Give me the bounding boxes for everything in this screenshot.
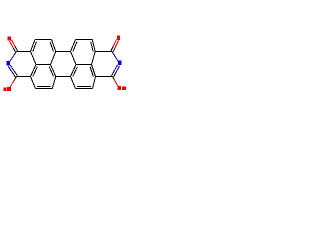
- double bond C3=N1: [15, 72, 18, 76]
- aromatic double UL-left: [31, 40, 36, 52]
- atom label N left: [6, 61, 10, 65]
- edge LL lower-left: [31, 77, 36, 89]
- aromatic double LL-upper-right: [51, 65, 56, 77]
- edge LR lower-right: [93, 77, 96, 89]
- atom label O top-left carbonyl: [8, 36, 11, 40]
- naphthalene fusion bond right: [76, 64, 92, 66]
- biaryl bond bottom: [56, 76, 71, 78]
- top edge UL ring: [35, 39, 52, 41]
- hydroxyl C3-OH left: [14, 77, 16, 81]
- aromatic double UL-right: [52, 40, 56, 52]
- edge LR lower-left: [71, 77, 76, 89]
- bond C8-N2 single: [112, 52, 114, 56]
- atom label H of HO bottom-left: [3, 88, 6, 92]
- biaryl bond top: [56, 51, 71, 53]
- bond C11a-C11b: [31, 52, 37, 65]
- bond C1-C11a: [17, 51, 31, 53]
- bond C8a-C8: [95, 51, 112, 53]
- bond C1-N1 single: [14, 52, 17, 56]
- atom label O of HO bottom-left: [7, 87, 11, 91]
- atom label H of OH bottom-right: [122, 86, 126, 90]
- atom label O top-right carbonyl: [117, 36, 120, 40]
- double bond C11b=C11c left: [31, 65, 37, 77]
- edge central upper-right: [71, 52, 77, 65]
- chemical structure drawing: perylene bisimide (lactim tautomer): [0, 0, 130, 130]
- double bond C10=N2: [114, 73, 116, 77]
- naphthalene fusion bond left: [36, 64, 51, 66]
- hydroxyl C10-OH right: [113, 77, 115, 81]
- carbonyl C1=O left: [15, 47, 17, 51]
- edge LL lower-right: [52, 77, 56, 89]
- aromatic double LR-upper-right: [92, 65, 96, 77]
- carbonyl C8=O right: [113, 48, 115, 52]
- aromatic double UR-left: [71, 40, 76, 52]
- bond C10-C10a: [96, 76, 113, 78]
- top edge UR ring: [76, 39, 93, 41]
- edge UR lower-right: [92, 52, 96, 65]
- bond C3a-C3: [17, 76, 31, 78]
- edge UL lower-right: [51, 52, 56, 65]
- atom label N right: [118, 60, 122, 65]
- atom label O of OH bottom-right: [117, 86, 121, 90]
- aromatic double LR-bottom: [76, 88, 93, 90]
- aromatic double central-right: [71, 65, 77, 77]
- aromatic double LL-bottom: [36, 88, 53, 90]
- aromatic double UR-right: [92, 40, 95, 52]
